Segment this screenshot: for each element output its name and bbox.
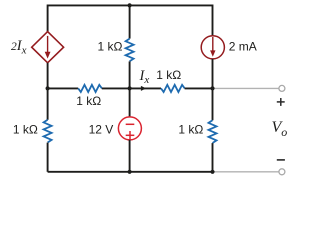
junction dot bottom-right xyxy=(210,170,214,174)
resistor 1kOhm middle-right horizontal xyxy=(161,85,185,92)
wire middle branch to middle node xyxy=(129,61,131,88)
voltage source 12V xyxy=(118,117,141,140)
svg-text:Ix: Ix xyxy=(139,68,150,86)
resistor 1kOhm right vertical xyxy=(209,120,217,143)
svg-text:1 kΩ: 1 kΩ xyxy=(13,123,38,137)
minus sign (output polarity) xyxy=(277,159,285,161)
wire left branch to bottom xyxy=(47,143,49,172)
wire left branch below diamond xyxy=(47,63,49,89)
middle wire center segment xyxy=(102,87,161,89)
wire right branch below 2mA xyxy=(212,59,214,89)
middle wire left segment xyxy=(48,87,79,89)
wire right branch middle-to-resistor xyxy=(212,88,214,120)
wire left branch top (to dependent source) xyxy=(47,5,49,32)
svg-text:1 kΩ: 1 kΩ xyxy=(156,68,181,82)
junction dot middle-center xyxy=(128,86,132,90)
wire right branch to bottom xyxy=(212,143,214,172)
gray wire to + terminal xyxy=(214,87,279,89)
resistor 1kOhm left vertical xyxy=(44,120,52,143)
junction dot bottom-middle xyxy=(128,170,132,174)
svg-text:1 kΩ: 1 kΩ xyxy=(178,123,203,137)
svg-text:2 mA: 2 mA xyxy=(229,39,257,53)
bottom wire xyxy=(48,171,213,173)
wire middle branch top xyxy=(129,5,131,38)
gray wire to - terminal xyxy=(214,171,279,173)
junction dot middle-left xyxy=(46,86,50,90)
current arrow Ix on middle wire xyxy=(141,86,146,91)
svg-text:1 kΩ: 1 kΩ xyxy=(98,40,123,54)
junction dot middle-right xyxy=(210,86,214,90)
wire middle branch to 12V source xyxy=(129,88,131,117)
resistor 1kOhm middle-left horizontal xyxy=(78,85,102,92)
svg-text:2Ix: 2Ix xyxy=(11,38,27,57)
wire right branch top (to 2mA source) xyxy=(212,5,214,36)
top wire xyxy=(48,4,213,6)
middle wire right segment xyxy=(185,87,213,89)
current source 2 mA xyxy=(201,36,224,59)
junction dot top-middle xyxy=(128,3,132,7)
svg-text:Vo: Vo xyxy=(272,119,288,139)
svg-text:12 V: 12 V xyxy=(89,123,114,137)
+ output terminal xyxy=(279,85,285,91)
wire middle branch below source xyxy=(129,140,131,172)
wire left branch lower xyxy=(47,88,49,119)
dependent current source 2Ix (diamond) xyxy=(32,32,64,63)
resistor 1kOhm middle-top vertical xyxy=(126,39,134,62)
plus sign (output polarity) xyxy=(277,98,285,106)
- output terminal xyxy=(279,169,285,175)
svg-text:1 kΩ: 1 kΩ xyxy=(76,94,101,108)
